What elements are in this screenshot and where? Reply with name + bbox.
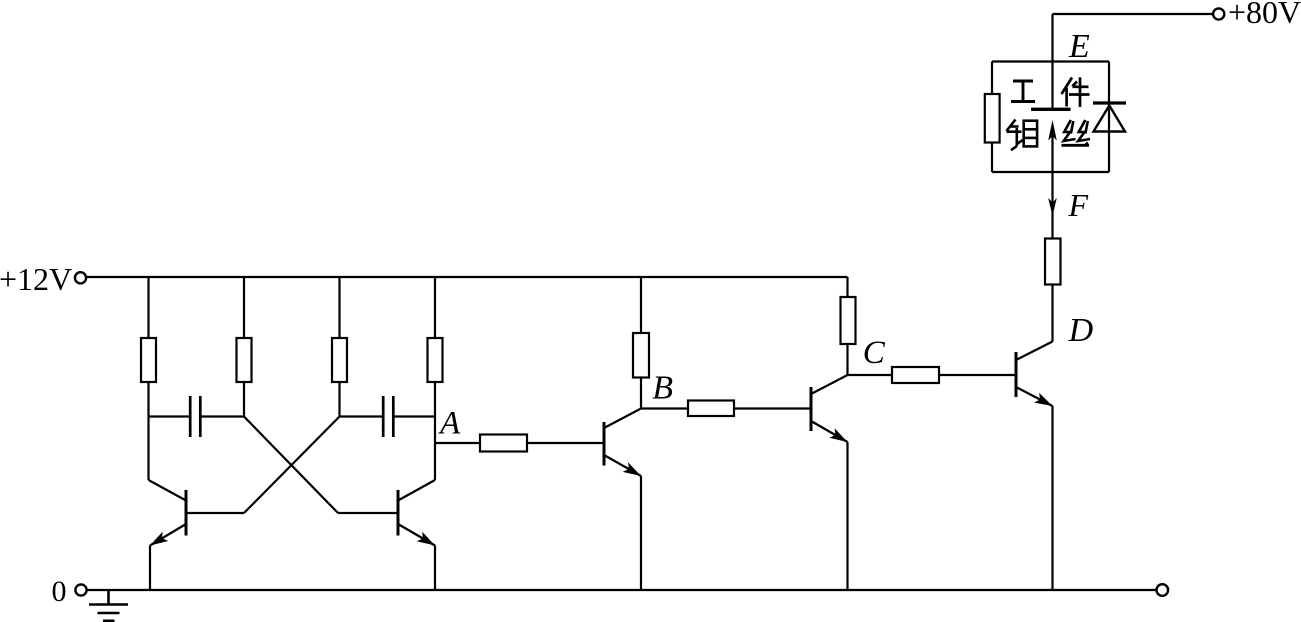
transistor C: [811, 375, 848, 442]
bottom rail 0V: [87, 589, 1157, 591]
hanzi 丝 (wire char): [1062, 120, 1091, 145]
diode on box right edge: [1093, 103, 1126, 132]
resistor R1: [141, 338, 156, 382]
wire node A to RA: [435, 442, 480, 444]
wire cross-coupling R2 to T2 base: [244, 417, 338, 514]
wire cap1 left lead: [149, 415, 190, 417]
hanzi 工 (workpiece left char): [1011, 81, 1035, 102]
wire R7 to C base: [734, 407, 811, 409]
wire cap1 right lead: [202, 415, 245, 417]
resistor R2: [237, 338, 252, 382]
node +12V terminal: [75, 272, 86, 283]
node output terminal (bottom right): [1157, 584, 1169, 596]
hanzi 钼 (molybdenum left char): [1007, 120, 1038, 151]
wire rail to R2: [243, 277, 245, 338]
resistor on box left edge: [985, 94, 1000, 143]
wire R9 to D collector: [1051, 284, 1053, 342]
wire B emitter to bottom rail: [640, 476, 642, 590]
svg-text:E: E: [1068, 28, 1090, 65]
molybdenum wire electrode arrow (up): [1048, 120, 1057, 172]
wire T1 collector drop: [149, 417, 187, 501]
wire R5 to node B: [640, 378, 642, 409]
svg-text:+12V: +12V: [0, 261, 72, 297]
wire C emitter to bottom rail: [846, 442, 848, 590]
resistor R6: [841, 297, 856, 344]
resistor R4: [428, 338, 443, 382]
transistor D: [1016, 342, 1053, 407]
svg-text:0: 0: [52, 575, 67, 608]
resistor R9: [1045, 239, 1061, 285]
wire R3 to cap row: [338, 382, 340, 417]
node +80V terminal: [1213, 8, 1224, 19]
hanzi 件 (workpiece right char): [1062, 77, 1090, 107]
svg-text:C: C: [863, 335, 886, 371]
resistor R3: [332, 338, 347, 382]
wire cap2 right lead: [395, 415, 436, 417]
resistor R8 (D base): [892, 367, 939, 383]
svg-text:A: A: [438, 406, 461, 442]
wire rail corner down to R6: [846, 277, 848, 297]
wire from box bottom to R9: [1051, 172, 1053, 240]
svg-text:D: D: [1068, 312, 1094, 349]
wire top from +80V to E drop: [1053, 13, 1214, 15]
wire T2 emitter to bottom rail: [434, 546, 436, 591]
wire R6 to node C: [846, 344, 848, 375]
resistor RA (B base): [480, 435, 527, 452]
resistor R5: [633, 333, 649, 378]
wire rail to R1: [147, 277, 149, 338]
transistor T2: [338, 490, 435, 546]
resistor R7 (C base): [688, 401, 734, 417]
transistor B: [604, 409, 641, 477]
node 0 terminal: [75, 584, 86, 595]
transistor T1: [150, 490, 244, 546]
wire T2 collector drop: [398, 417, 435, 501]
svg-text:F: F: [1068, 187, 1089, 223]
svg-text:B: B: [652, 370, 673, 407]
wire cross-coupling R3 to T1 base: [244, 417, 340, 514]
wire T1 emitter to bottom rail: [149, 546, 151, 591]
capacitor C1: [190, 396, 200, 437]
electrode bar (workpiece electrode): [1031, 108, 1071, 111]
wire node C to R8: [848, 374, 893, 376]
wire D emitter to bottom rail: [1051, 406, 1053, 590]
+12V rail: [86, 276, 848, 278]
wire R2 to cap row: [243, 382, 245, 417]
wire node B to R7: [641, 407, 688, 409]
wire rail to R5: [640, 277, 642, 333]
wire rail to R4: [434, 277, 436, 338]
wire vertical into box (E): [1051, 14, 1053, 109]
capacitor C2: [383, 396, 393, 437]
svg-text:+80V: +80V: [1228, 0, 1301, 30]
wire cap2 left lead: [340, 415, 384, 417]
current arrow F (down): [1048, 198, 1057, 216]
box workpiece/wire frame: [992, 62, 1109, 173]
wire R1 to cap row: [147, 382, 149, 417]
wire RA to B base: [527, 442, 604, 444]
ground: [89, 590, 128, 621]
wire R4 to cap row: [434, 382, 436, 417]
wire rail to R3: [338, 277, 340, 338]
wire R8 to D base: [939, 374, 1016, 376]
